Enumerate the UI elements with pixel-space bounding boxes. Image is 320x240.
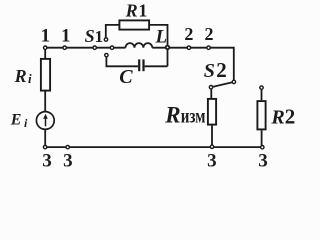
svg-text:1: 1 [138, 1, 147, 21]
svg-text:E: E [10, 111, 22, 128]
svg-text:R: R [125, 1, 138, 21]
svg-text:2: 2 [216, 58, 227, 82]
svg-text:R: R [164, 102, 180, 127]
svg-text:1: 1 [41, 26, 51, 47]
svg-text:i: i [24, 116, 28, 130]
svg-text:2: 2 [205, 24, 214, 44]
svg-text:S: S [85, 26, 95, 46]
svg-text:3: 3 [42, 151, 52, 169]
svg-text:3: 3 [258, 151, 268, 169]
svg-text:L: L [155, 26, 168, 47]
svg-text:2: 2 [285, 104, 296, 128]
svg-text:изм: изм [181, 105, 206, 126]
svg-text:1: 1 [61, 26, 71, 47]
svg-text:C: C [119, 66, 133, 88]
svg-text:3: 3 [207, 151, 217, 169]
svg-text:R: R [270, 106, 284, 128]
svg-text:3: 3 [63, 151, 73, 169]
svg-text:i: i [28, 71, 32, 86]
svg-text:S: S [204, 60, 215, 82]
svg-text:R: R [14, 66, 27, 86]
svg-text:1: 1 [95, 27, 104, 46]
svg-text:2: 2 [184, 24, 193, 44]
